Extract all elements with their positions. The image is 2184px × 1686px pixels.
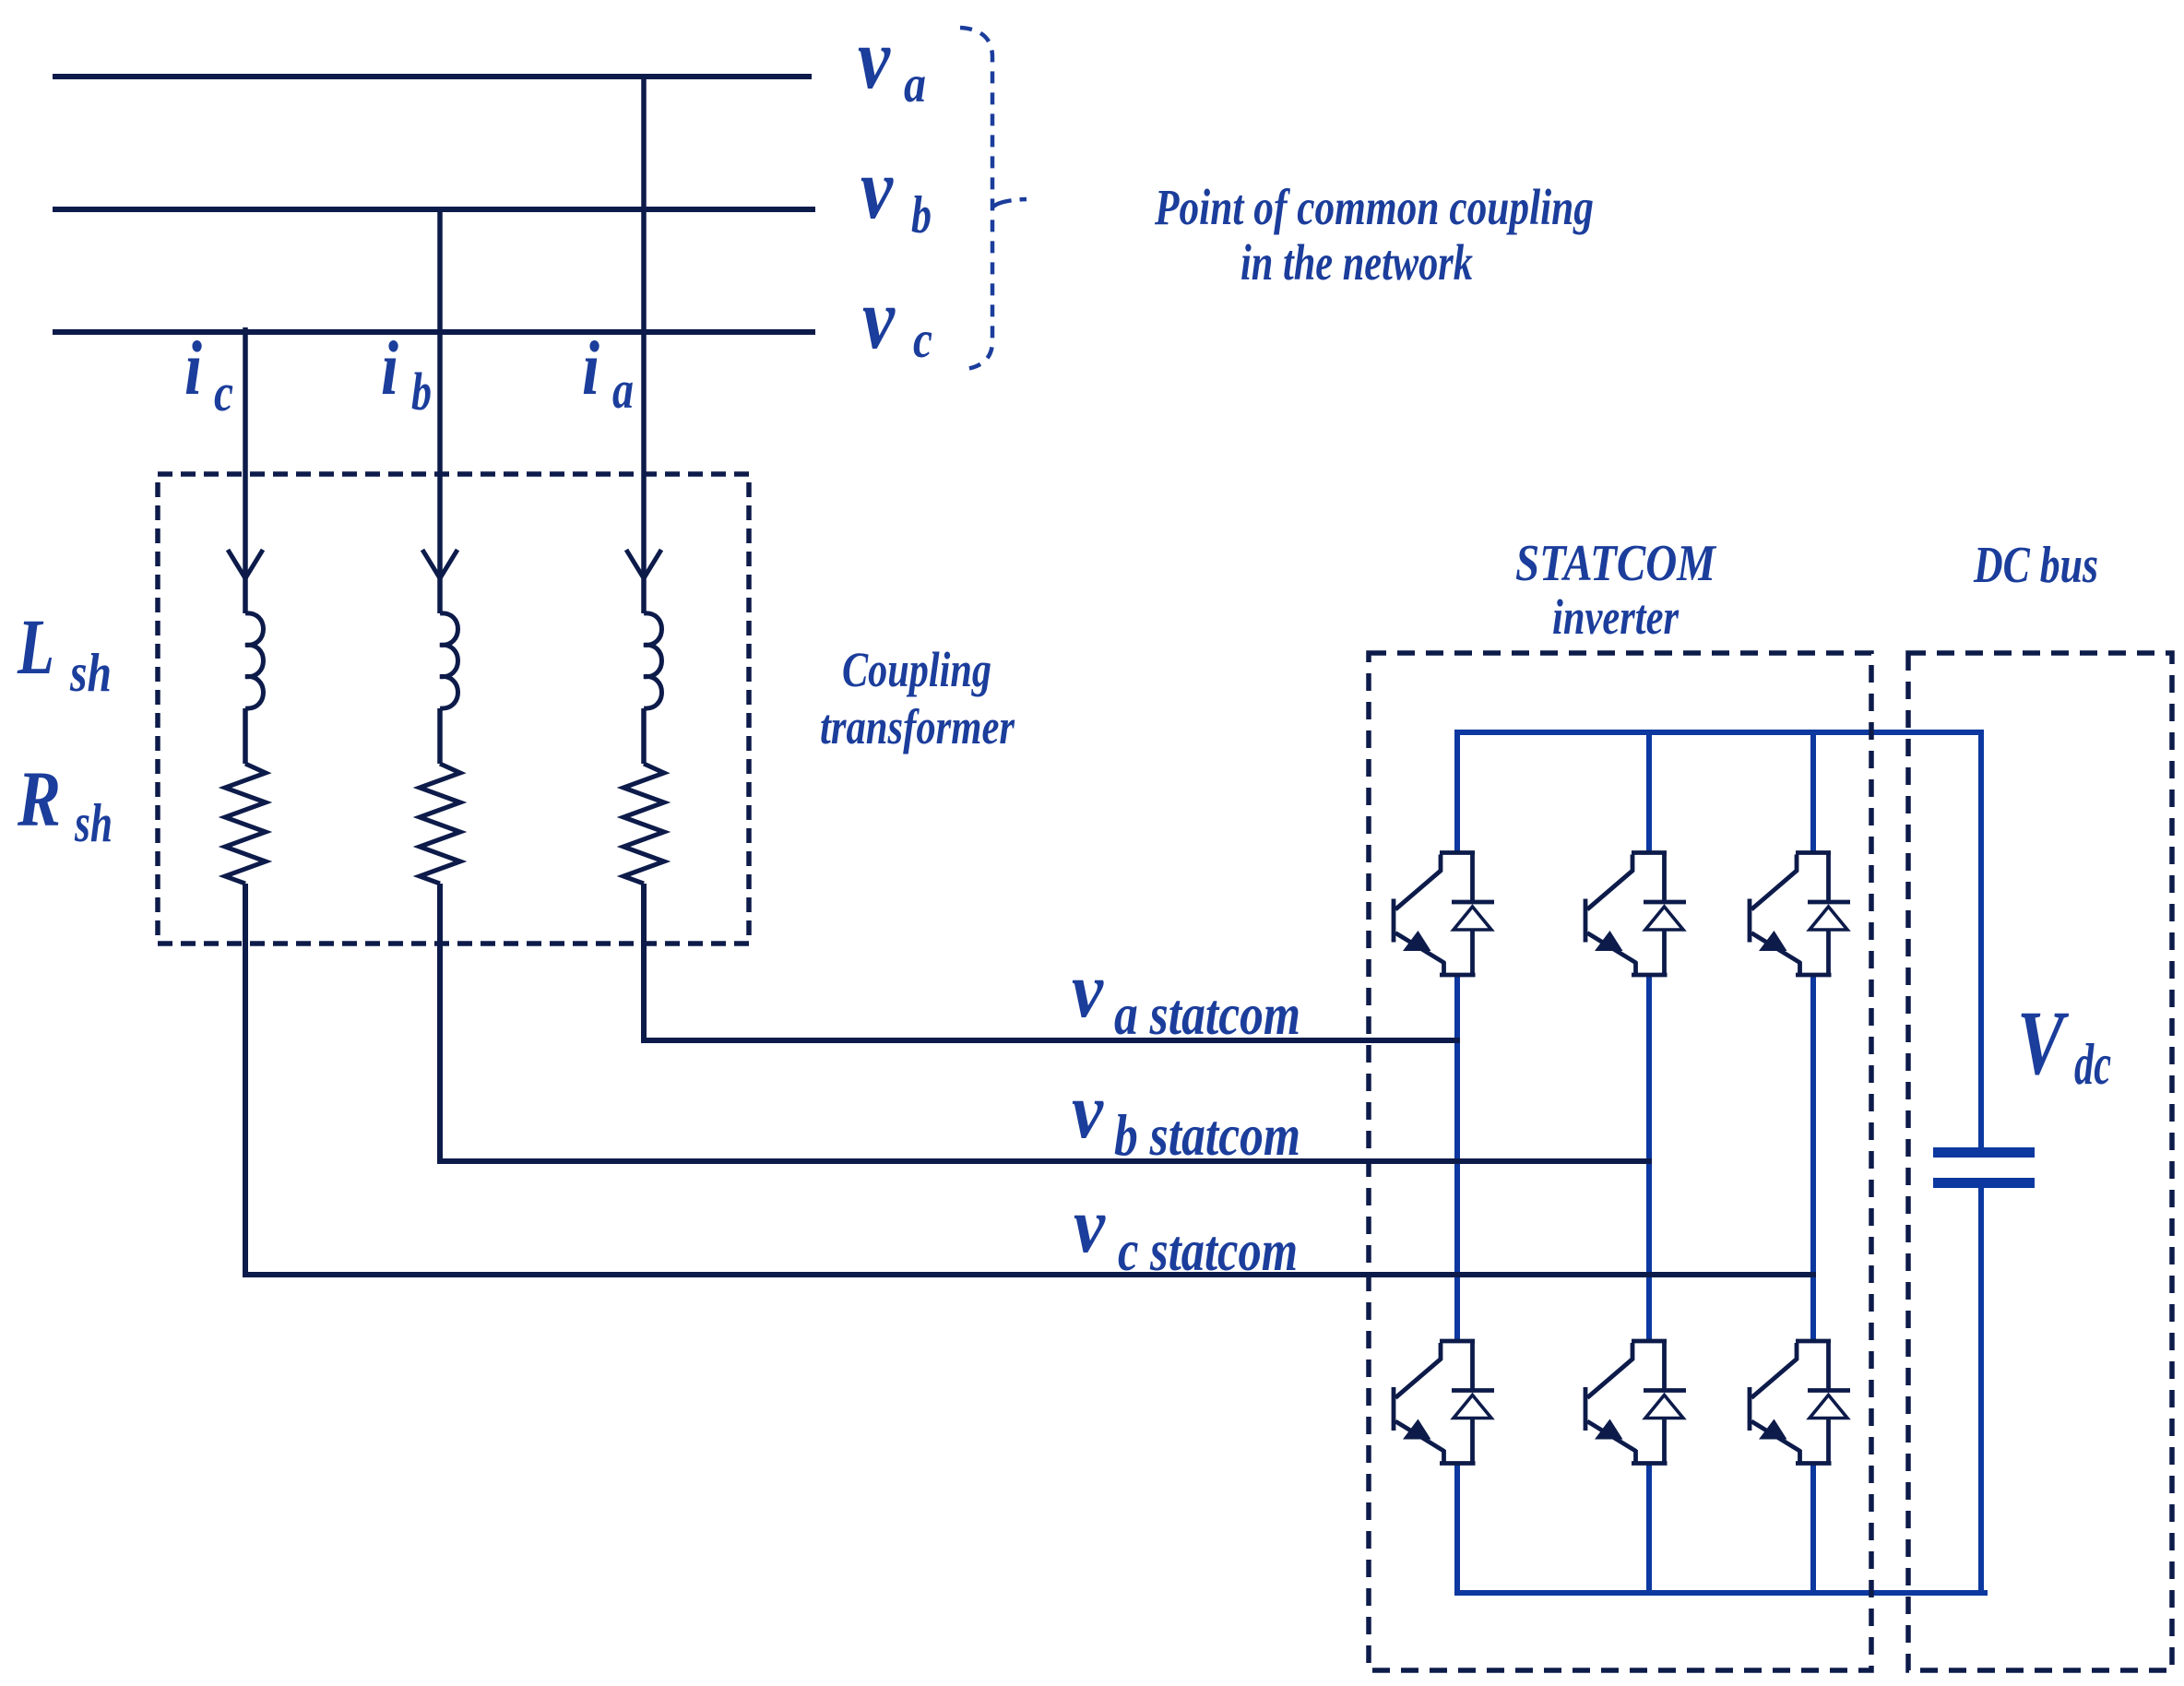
dc bottom rail — [1457, 1463, 1988, 1593]
svg-text:transformer: transformer — [820, 699, 1015, 754]
svg-text:V: V — [2017, 991, 2070, 1094]
wire leg b bottom — [1646, 1463, 1652, 1596]
svg-text:L: L — [17, 602, 54, 691]
PCC dashed brace — [960, 28, 992, 370]
svg-text:v: v — [861, 141, 894, 237]
svg-text:c: c — [913, 311, 932, 369]
label L_sh — [17, 602, 112, 703]
svg-text:Coupling: Coupling — [842, 642, 991, 697]
current arrow i_c — [228, 550, 263, 578]
label i_b — [381, 326, 432, 421]
inductor L_sh phase c — [245, 613, 264, 708]
svg-text:i: i — [184, 326, 202, 411]
svg-text:sh: sh — [74, 792, 113, 853]
label V_dc — [2017, 991, 2111, 1097]
label i_a — [582, 326, 634, 420]
label STATCOM inverter — [1515, 535, 1717, 645]
resistor R_sh phase c — [225, 764, 266, 884]
label v_b — [861, 141, 932, 244]
svg-text:DC bus: DC bus — [1973, 537, 2098, 594]
resistor R_sh phase b — [420, 764, 460, 884]
wire i_b from bus — [437, 209, 443, 764]
label v_a statcom — [1072, 945, 1300, 1047]
svg-text:a: a — [904, 55, 926, 113]
svg-text:in the network: in the network — [1240, 234, 1473, 291]
svg-text:sh: sh — [69, 642, 112, 703]
wire leg c middle — [1810, 975, 1816, 1342]
svg-text:c: c — [214, 362, 233, 422]
wire leg c bottom — [1810, 1463, 1816, 1596]
wire i_a from bus — [641, 77, 647, 764]
bus line v_a — [53, 74, 812, 79]
label R_sh — [17, 754, 113, 853]
IGBT lower phase b with antiparallel diode — [1585, 1341, 1686, 1464]
svg-text:v: v — [1074, 1181, 1106, 1269]
svg-text:v: v — [1072, 945, 1104, 1034]
label Point of common coupling in the network — [1154, 179, 1594, 291]
svg-text:dc: dc — [2074, 1031, 2111, 1097]
resistor R_sh phase a — [623, 764, 664, 884]
svg-text:c statcom: c statcom — [1118, 1217, 1298, 1283]
svg-text:i: i — [381, 326, 398, 411]
bus line v_b — [53, 207, 815, 212]
wire leg c top — [1810, 732, 1816, 852]
label v_a — [858, 11, 926, 113]
svg-text:R: R — [17, 754, 61, 843]
label DC bus — [1973, 537, 2098, 594]
wire leg b top — [1646, 732, 1652, 852]
coupling transformer dashed box — [158, 474, 749, 944]
PCC brace pointer tick — [993, 199, 1027, 207]
label v_c statcom — [1074, 1181, 1298, 1283]
wire leg b middle — [1646, 975, 1652, 1342]
current arrow i_a — [626, 550, 661, 578]
IGBT upper phase a with antiparallel diode — [1394, 853, 1494, 976]
wire leg a middle — [1454, 975, 1460, 1342]
svg-text:Point of common coupling: Point of common coupling — [1154, 179, 1594, 235]
STATCOM inverter dashed box — [1369, 653, 1871, 1670]
svg-text:b statcom: b statcom — [1114, 1102, 1300, 1168]
svg-text:a statcom: a statcom — [1114, 981, 1300, 1047]
svg-text:inverter: inverter — [1552, 589, 1680, 645]
label i_c — [184, 326, 233, 422]
label Coupling transformer — [820, 642, 1015, 754]
svg-text:v: v — [858, 11, 891, 107]
svg-text:v: v — [1072, 1066, 1104, 1155]
wire v_b statcom — [440, 884, 1652, 1161]
svg-text:a: a — [612, 360, 634, 420]
svg-text:b: b — [911, 186, 932, 244]
IGBT upper phase b with antiparallel diode — [1585, 853, 1686, 976]
svg-text:STATCOM: STATCOM — [1515, 535, 1717, 592]
inductor L_sh phase a — [644, 613, 662, 708]
IGBT lower phase c with antiparallel diode — [1750, 1341, 1850, 1464]
IGBT upper phase c with antiparallel diode — [1750, 853, 1850, 976]
capacitor Vdc plates — [1933, 1153, 2035, 1183]
svg-text:i: i — [582, 326, 599, 411]
inductor L_sh phase b — [440, 613, 458, 708]
bus line v_c — [53, 329, 815, 335]
IGBT lower phase a with antiparallel diode — [1394, 1341, 1494, 1464]
label v_c — [862, 271, 932, 369]
current arrow i_b — [422, 550, 457, 578]
DC bus dashed box — [1908, 653, 2172, 1670]
capacitor bottom feed wire — [1978, 1187, 1984, 1596]
label v_b statcom — [1072, 1066, 1300, 1168]
svg-text:v: v — [862, 271, 896, 367]
svg-text:b: b — [411, 362, 432, 421]
wire v_a statcom — [644, 884, 1460, 1040]
dc top rail — [1457, 732, 1981, 1147]
wire v_c statcom — [245, 884, 1816, 1275]
wire i_c from bus — [243, 327, 248, 764]
